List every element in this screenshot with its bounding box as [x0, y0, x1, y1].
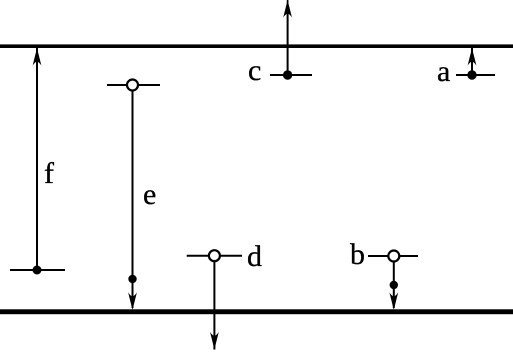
charge circle e — [127, 80, 138, 91]
charge dot c — [283, 70, 292, 79]
charge circle b — [388, 251, 399, 262]
wire a vertical — [471, 48, 473, 75]
top plate — [0, 44, 513, 48]
charge dot b lower — [390, 281, 398, 289]
svg-text:c: c — [248, 54, 261, 87]
tick a — [456, 74, 495, 76]
svg-text:d: d — [247, 240, 262, 273]
charge dot e lower — [128, 275, 136, 283]
wire d vertical — [213, 261, 215, 350]
bottom plate — [0, 309, 513, 314]
svg-text:a: a — [437, 55, 450, 88]
tick b — [368, 255, 418, 257]
arrow d down — [210, 332, 219, 350]
charge dot a — [467, 70, 476, 79]
arrow b down — [389, 292, 398, 310]
tick c — [270, 74, 312, 76]
tick f — [10, 269, 65, 271]
wire f vertical — [36, 48, 38, 270]
wire b vertical — [393, 262, 395, 309]
tick d — [187, 255, 242, 257]
arrow c up — [283, 0, 292, 18]
svg-text:b: b — [350, 238, 365, 271]
charge circle d — [209, 250, 220, 261]
tick e — [107, 84, 160, 86]
arrow e down — [128, 292, 137, 310]
charge dot f bottom — [33, 266, 42, 275]
wire e vertical — [132, 91, 134, 309]
svg-text:f: f — [44, 157, 54, 190]
svg-text:e: e — [143, 178, 156, 211]
arrow f up — [33, 48, 42, 66]
arrow a up — [468, 48, 477, 66]
wire c vertical — [287, 8, 289, 75]
